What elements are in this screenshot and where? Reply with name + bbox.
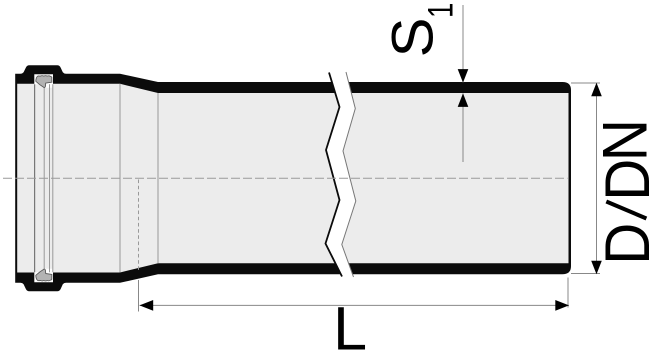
sealing ring bottom [36, 269, 52, 281]
S1 arrow down [458, 69, 469, 83]
break line right (thin) [342, 72, 356, 277]
svg-text:1: 1 [420, 3, 460, 18]
L arrow right [555, 300, 569, 311]
S1 arrow up [458, 93, 469, 107]
D/DN arrow up [591, 83, 602, 97]
break line left (black) [326, 73, 343, 277]
L dimension line [140, 304, 570, 306]
L arrow left [140, 300, 154, 311]
S1 leader line upper [462, 5, 464, 83]
taper edge line right [157, 93, 159, 263]
svg-text:N: N [590, 119, 659, 161]
svg-text:D: D [592, 159, 659, 201]
groove projection line a [34, 84, 36, 272]
svg-text:D: D [592, 223, 659, 265]
svg-text:L: L [333, 294, 367, 360]
sealing ring top [36, 76, 52, 88]
svg-text:S: S [381, 18, 445, 58]
gasket groove cavity top [34, 74, 53, 88]
centerline [3, 177, 568, 179]
D/DN dimension line [596, 83, 598, 274]
D/DN extension line top [571, 82, 600, 84]
S1 leader line lower [462, 94, 464, 163]
groove projection line c [49, 84, 51, 272]
L extension line right [567, 278, 569, 308]
hidden socket-depth line (dashed, lower half) [138, 180, 140, 273]
taper edge line left [119, 84, 121, 273]
pipe interior (bore) [17, 84, 568, 273]
groove projection line d [52, 84, 54, 272]
groove projection line b [43, 88, 45, 270]
break symbol white gap [326, 72, 356, 277]
pipe outer silhouette (socket, gasket bump, taper, body) [15, 65, 571, 291]
L extension line left [138, 280, 140, 312]
D/DN arrow down [591, 261, 602, 275]
label D/DN : slash [606, 202, 646, 219]
D/DN extension line bottom [571, 273, 600, 275]
gasket groove cavity bottom [34, 269, 53, 283]
